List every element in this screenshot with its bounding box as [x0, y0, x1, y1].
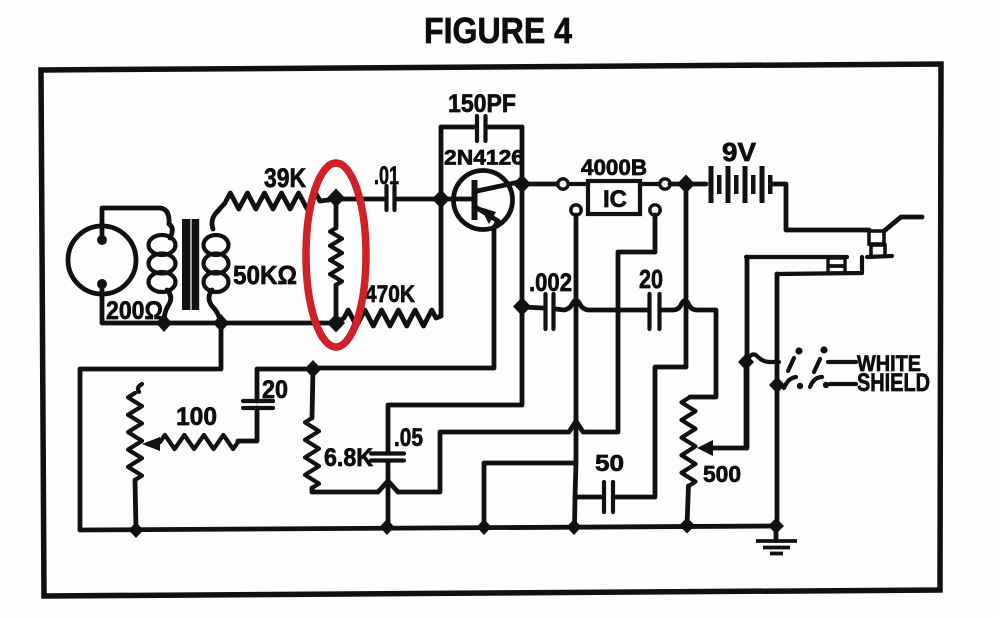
svg-text:50: 50 — [595, 450, 624, 476]
svg-text:100: 100 — [176, 403, 217, 431]
svg-text:.05: .05 — [394, 424, 423, 452]
svg-text:150PF: 150PF — [448, 90, 516, 118]
svg-text:SHIELD: SHIELD — [857, 369, 930, 397]
svg-text:.002: .002 — [529, 269, 572, 297]
svg-text:IC: IC — [603, 186, 627, 213]
svg-text:9V: 9V — [722, 137, 757, 167]
svg-text:6.8K: 6.8K — [324, 444, 373, 472]
svg-text:470K: 470K — [365, 281, 416, 308]
svg-text:50KΩ: 50KΩ — [233, 260, 297, 290]
svg-text:39K: 39K — [264, 163, 306, 193]
svg-text:20: 20 — [262, 376, 288, 404]
svg-text:4000B: 4000B — [581, 155, 647, 180]
svg-text:500: 500 — [703, 461, 741, 487]
svg-text:FIGURE 4: FIGURE 4 — [424, 10, 572, 51]
svg-text:20: 20 — [639, 264, 663, 294]
svg-text:200Ω: 200Ω — [106, 297, 163, 325]
svg-text:.01: .01 — [374, 162, 399, 190]
svg-text:2N4126: 2N4126 — [444, 147, 524, 170]
